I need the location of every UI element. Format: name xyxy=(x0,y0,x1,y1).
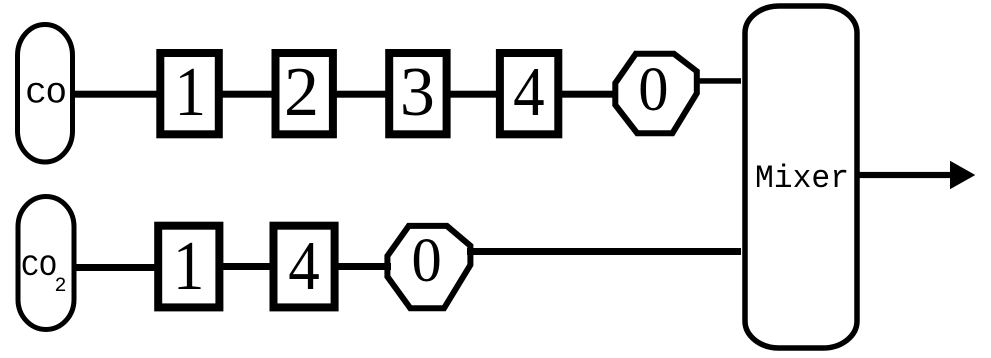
output arrowhead xyxy=(950,161,975,189)
block 2 xyxy=(276,53,333,134)
wire CO2 to block 1 xyxy=(72,264,162,271)
wire block1 to block4 (bottom) xyxy=(216,263,276,270)
svg-text:Mixer: Mixer xyxy=(755,161,849,197)
wire valve to mixer (bottom) xyxy=(467,248,741,255)
svg-text:2: 2 xyxy=(55,275,67,298)
block 4 (bottom row) xyxy=(274,226,335,308)
wire valve to mixer (top) xyxy=(696,78,741,84)
block 1 (top row) xyxy=(160,53,219,134)
svg-text:CO: CO xyxy=(25,77,66,112)
vessel CO xyxy=(18,25,73,163)
svg-text:1: 1 xyxy=(173,228,205,305)
wire block4 to valve 0 (bottom) xyxy=(331,263,391,270)
block 4 (top row) xyxy=(500,53,558,134)
svg-text:4: 4 xyxy=(288,228,320,305)
block 1 (bottom row) xyxy=(158,226,219,308)
wire block3 to block4 xyxy=(446,91,500,98)
valve 0 (top row, octagon) xyxy=(615,54,697,134)
wire CO to block 1 xyxy=(72,91,162,98)
wire block4 to valve 0 xyxy=(558,91,616,98)
svg-text:3: 3 xyxy=(400,54,435,131)
block 3 xyxy=(389,53,446,134)
svg-text:1: 1 xyxy=(175,54,207,131)
svg-text:0: 0 xyxy=(411,226,441,295)
valve 0 (bottom row, octagon) xyxy=(387,226,470,308)
svg-text:CO: CO xyxy=(21,251,57,285)
svg-text:4: 4 xyxy=(513,54,545,131)
wire block1 to block2 xyxy=(218,91,278,98)
vessel Mixer xyxy=(745,6,857,348)
vessel CO2 xyxy=(18,197,74,330)
output arrow shaft xyxy=(856,172,952,178)
svg-text:0: 0 xyxy=(638,55,668,124)
svg-text:2: 2 xyxy=(284,54,319,131)
label CO2 xyxy=(21,251,67,298)
wire block2 to block3 xyxy=(332,91,389,98)
